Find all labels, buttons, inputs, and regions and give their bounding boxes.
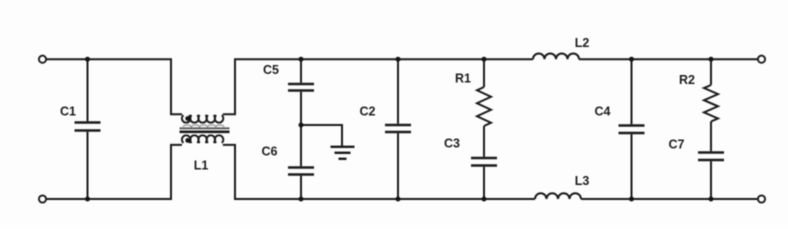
- svg-text:C3: C3: [444, 137, 460, 151]
- capacitor C1 branch wires: [87, 59, 89, 121]
- terminal: input top: [39, 56, 46, 63]
- junction: C4 bottom: [629, 197, 634, 202]
- capacitor C3 plates: [471, 158, 497, 166]
- polarity dot: L1 top winding: [185, 116, 190, 121]
- junction: C6 bottom: [299, 197, 304, 202]
- capacitor C6 plates: [288, 168, 314, 175]
- polarity dot: L1 bottom winding: [185, 138, 190, 143]
- svg-text:C7: C7: [669, 137, 685, 151]
- svg-text:C6: C6: [262, 145, 278, 159]
- junction: C5 top: [299, 57, 304, 62]
- wire: top rail right of L1: [223, 59, 533, 114]
- junction: C2 top: [396, 57, 401, 62]
- transformer L1 (common-mode choke) top winding: [182, 115, 223, 123]
- svg-text:C1: C1: [60, 105, 76, 119]
- transformer L1 core: [180, 128, 230, 132]
- wire: ground branch: [301, 125, 342, 146]
- svg-text:L3: L3: [575, 174, 590, 188]
- svg-text:L1: L1: [194, 159, 209, 173]
- capacitor C7 plates: [698, 153, 724, 161]
- terminal: input bottom: [39, 195, 46, 202]
- junction: C4 top: [629, 57, 634, 62]
- capacitor C2 branch wires: [397, 59, 399, 124]
- junction: C2 bottom: [396, 197, 401, 202]
- wire: bottom rail left (input to L1): [46, 145, 182, 199]
- wire: top rail left (input to L1): [46, 59, 182, 114]
- svg-text:R1: R1: [455, 72, 471, 86]
- ground: [331, 147, 355, 159]
- capacitor C7 branch wires: [710, 122, 712, 152]
- svg-text:R2: R2: [679, 73, 695, 87]
- svg-text:C4: C4: [595, 104, 611, 118]
- terminal: output bottom: [758, 195, 765, 202]
- junction: C5/C6/ground node: [299, 123, 304, 128]
- inductor L2: [533, 53, 579, 59]
- capacitor C5 branch wires: [300, 59, 302, 83]
- capacitor C3 branch wires: [483, 126, 485, 157]
- capacitor C2 plates: [385, 125, 411, 132]
- capacitor C4 plates: [619, 126, 645, 134]
- wire: bottom rail right of L1: [223, 145, 535, 199]
- resistor R1: [483, 59, 485, 87]
- wire: top rail right (L2 to output): [579, 58, 758, 60]
- junction: C1 top: [85, 57, 90, 62]
- terminal: output top: [758, 56, 765, 63]
- inductor L3: [535, 193, 581, 199]
- svg-text:C5: C5: [263, 63, 279, 77]
- svg-text:C2: C2: [360, 105, 376, 119]
- junction: C1 bottom: [85, 197, 90, 202]
- junction: R2 top: [709, 57, 714, 62]
- junction: C7 bottom: [709, 197, 714, 202]
- resistor R2: [710, 59, 712, 85]
- transformer L1 bottom winding: [182, 135, 223, 143]
- capacitor C1 plates: [75, 123, 101, 131]
- capacitor C6 branch wires: [300, 125, 302, 166]
- wire: bottom rail right (L3 to output): [581, 198, 758, 200]
- capacitor C4 branch wires: [631, 59, 633, 124]
- capacitor C5 plates: [288, 84, 314, 91]
- junction: R1 top: [482, 57, 487, 62]
- svg-text:L2: L2: [575, 36, 590, 50]
- junction: C3 bottom: [482, 197, 487, 202]
- transformer L1 winding smear row: [183, 125, 224, 127]
